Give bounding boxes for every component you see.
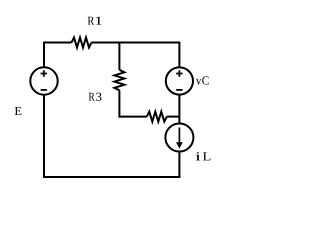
label E (15, 107, 22, 115)
wire left lower (E down to bottom-left corner) (43, 95, 45, 178)
label vC (196, 76, 209, 84)
wire left upper (top-left corner down to E) (43, 42, 45, 68)
arrow of iL (downward) (176, 128, 183, 149)
voltage source E (30, 67, 57, 94)
wire bottom (43, 176, 180, 178)
wire top-left segment (left corner to R1) (44, 42, 72, 44)
resistor R1 (72, 38, 92, 48)
minus sign of vC (176, 89, 182, 91)
plus sign of vC (176, 70, 182, 77)
wire middle branch lower (R3 down to corner, then right to horizontal resistor) (119, 90, 146, 116)
wire right lower (iL bottom to bottom-right corner) (178, 152, 180, 179)
current source iL (165, 124, 193, 152)
minus sign of E (41, 89, 47, 91)
wire top segment (R1 to right corner) (92, 42, 180, 44)
wire middle horizontal (resistor to right branch junction) (167, 116, 180, 118)
wire right middle (vC bottom to iL top, tee with middle wire) (178, 95, 180, 123)
resistor R3 (114, 70, 124, 91)
label iL (195, 152, 210, 160)
label R1 (88, 17, 102, 25)
wire middle branch top (junction at top wire down to R3) (118, 43, 120, 70)
voltage source vC (166, 67, 193, 94)
label R3 (89, 93, 102, 101)
wire right upper (top-right corner down to vC) (178, 42, 180, 68)
resistor (unlabeled, middle horizontal) (147, 112, 167, 122)
plus sign of E (41, 70, 47, 77)
